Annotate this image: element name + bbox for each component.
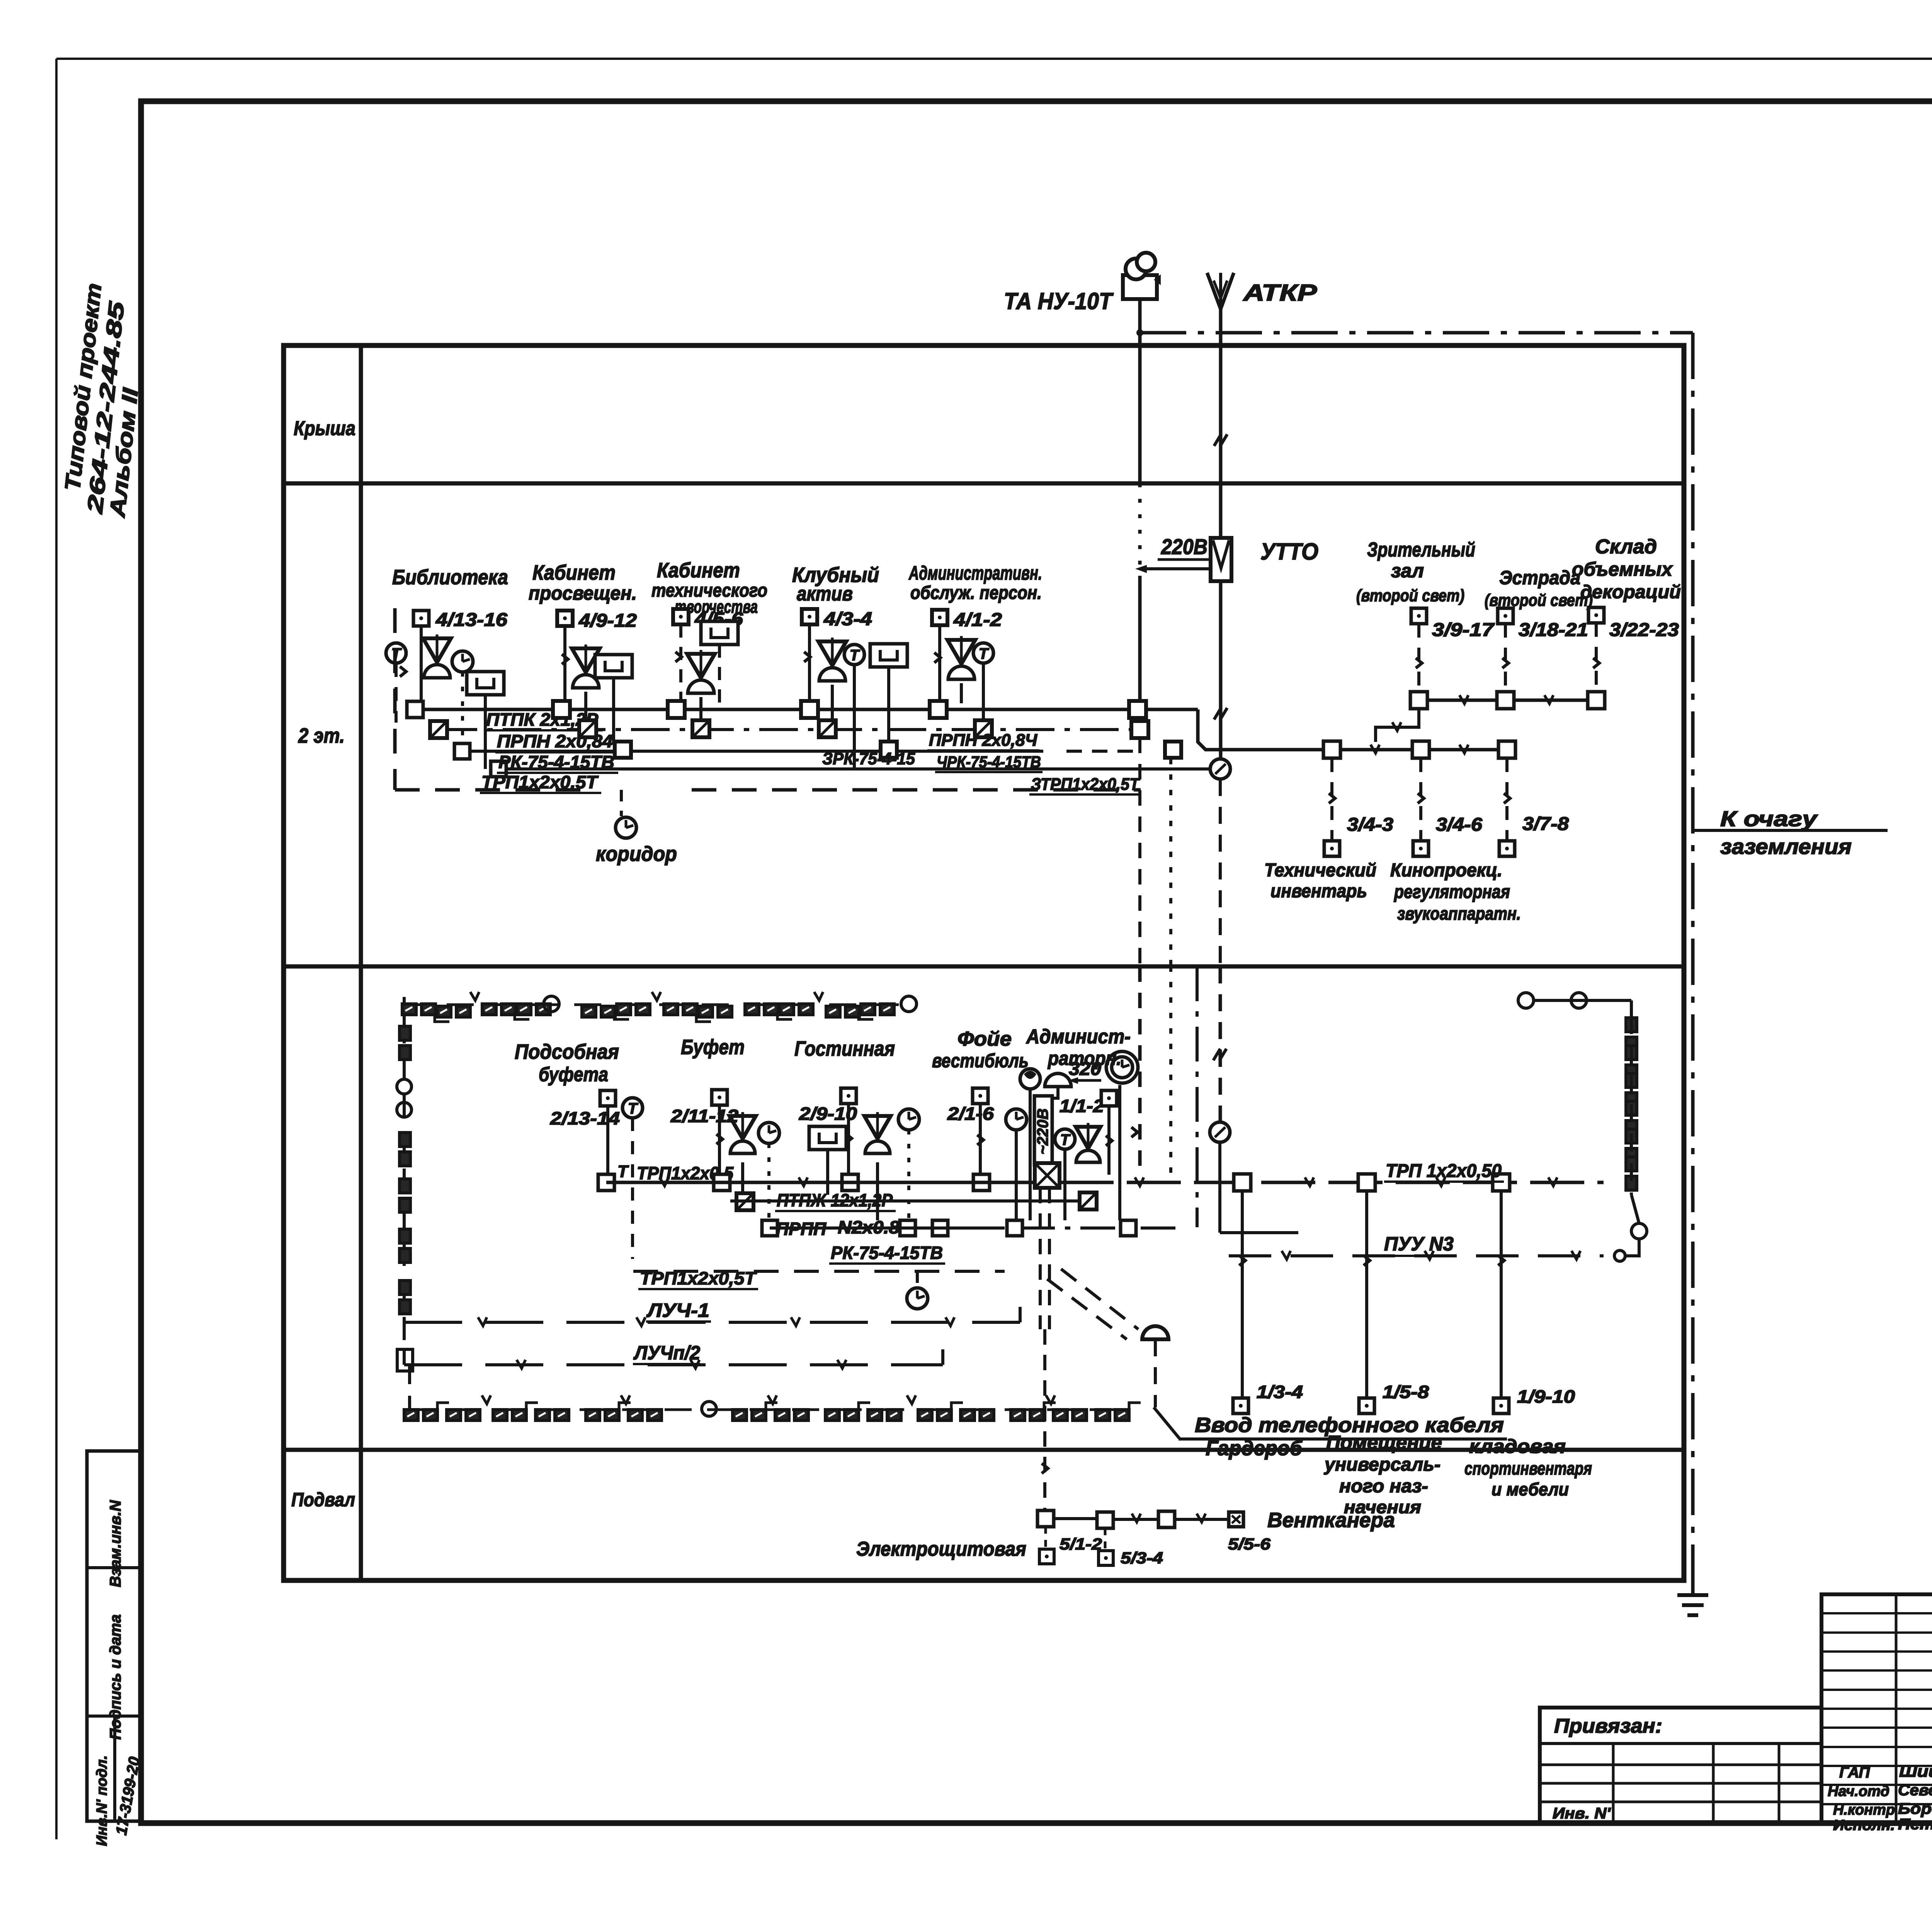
svg-text:универсаль-: универсаль-: [1324, 1454, 1440, 1475]
right perimeter chain boxes: [1626, 1018, 1637, 1032]
wire tvD down: [887, 667, 890, 743]
first floor bottom perimeter wire: [410, 1408, 1121, 1411]
electric bell circle: [1020, 1069, 1040, 1089]
revision table grid: [1821, 1594, 1932, 1823]
terminal box 3/4-6: [1413, 841, 1429, 856]
svg-text:Инв.N' подл.: Инв.N' подл.: [94, 1755, 110, 1846]
svg-text:Технический: Технический: [1264, 860, 1376, 881]
antenna АТКР symbol: [1207, 273, 1234, 309]
antenna riser below splitter: [1218, 1142, 1221, 1233]
wire ЛУЧ-1: [404, 1321, 1020, 1324]
wire clock corridor: [916, 1271, 919, 1288]
svg-text:Т: Т: [628, 1100, 639, 1117]
svg-text:заземления: заземления: [1720, 834, 1852, 859]
telephone socket 1f: [622, 1098, 643, 1118]
svg-text:5/1-2: 5/1-2: [1060, 1535, 1102, 1553]
basement terminal 5/1-2: [1039, 1549, 1054, 1564]
first floor top chain of lamp boxes: [402, 1004, 416, 1015]
svg-text:3/22-23: 3/22-23: [1609, 620, 1679, 640]
telephone socket T 1f: [1055, 1129, 1075, 1149]
chain circle b: [901, 996, 917, 1012]
left chain end box: [397, 1349, 413, 1371]
hatch box E: [975, 720, 992, 737]
svg-text:Подвал: Подвал: [291, 1489, 355, 1510]
loudspeaker C: [687, 654, 715, 678]
svg-text:Административн.: Административн.: [908, 562, 1042, 584]
terminal box 3/18-21: [1498, 608, 1513, 624]
wire tv B down: [612, 678, 615, 743]
antenna splitter circle 2nd floor: [1210, 759, 1230, 779]
svg-text:3/9-17: 3/9-17: [1432, 620, 1495, 640]
wire 3/9-17 down dashed: [1417, 624, 1420, 692]
bus box 3/9-17: [1410, 692, 1427, 709]
svg-text:Исполн.: Исполн.: [1833, 1817, 1895, 1834]
dome horn symbol: [1045, 1073, 1071, 1087]
phone riser lower box: [1165, 742, 1181, 758]
svg-text:Шишков: Шишков: [1899, 1762, 1932, 1780]
wire 2/13-14 down: [606, 1106, 609, 1174]
clock 1f b: [759, 1123, 779, 1143]
wire tv down: [484, 695, 487, 769]
svg-text:1/1-2: 1/1-2: [1060, 1096, 1104, 1116]
terminal box 2/1-6: [973, 1088, 988, 1104]
dash-dot riser 1st floor: [1196, 966, 1199, 1227]
svg-text:Буфет: Буфет: [681, 1036, 745, 1059]
left perimeter chain boxes: [400, 1026, 410, 1040]
wire socket T down: [1063, 1149, 1066, 1220]
svg-text:ПРПН 2х0,8Ч: ПРПН 2х0,8Ч: [929, 731, 1037, 750]
riser piece 1st floor: [1169, 966, 1172, 1182]
svg-text:Т: Т: [1060, 1131, 1071, 1148]
wire riser continues down: [1138, 738, 1141, 966]
svg-text:декораций: декораций: [1580, 582, 1681, 602]
wire 1/5-8 vert: [1365, 1191, 1368, 1397]
wire 2/1-6 down: [979, 1104, 982, 1175]
svg-text:Подпись и дата: Подпись и дата: [107, 1614, 124, 1740]
splitter box УТТО: [1211, 538, 1231, 581]
telephone entry diagonal: [1154, 1407, 1179, 1438]
svg-text:коридор: коридор: [596, 842, 677, 866]
bus box 3/4-3: [1323, 741, 1340, 758]
phone riser pair: [1039, 1188, 1042, 1329]
svg-text:и мебели: и мебели: [1492, 1479, 1569, 1499]
bus2 box c: [900, 1220, 915, 1236]
hatch box 1f b: [736, 1193, 753, 1210]
svg-text:Админист-: Админист-: [1026, 1026, 1131, 1048]
chevron: [400, 667, 406, 677]
wire speaker down c: [876, 1162, 879, 1220]
v marks main bus: [660, 1177, 668, 1186]
ground bus dash-dot riser: [1691, 333, 1695, 1581]
clock symbol: [452, 651, 473, 672]
hatch box ПТПЖ right: [1080, 1192, 1097, 1209]
basement wire 2: [1113, 1518, 1158, 1521]
svg-text:ТРП1х2х0,5Т: ТРП1х2х0,5Т: [481, 772, 599, 792]
terminal box 2/11-12: [712, 1090, 727, 1105]
svg-text:4/3-4: 4/3-4: [823, 609, 872, 629]
wire speaker B down: [584, 692, 587, 722]
svg-text:5/5-6: 5/5-6: [1228, 1535, 1271, 1553]
bus box right3: [1493, 1174, 1510, 1191]
telephone socket E: [973, 643, 993, 663]
svg-text:Т: Т: [850, 647, 861, 664]
2nd floor main bus elbow down: [1198, 709, 1328, 750]
wire socket E down: [982, 663, 985, 722]
telephone set ТА НУ-10Т symbol: [1123, 275, 1157, 299]
junction box D lower: [881, 742, 897, 758]
tv outlet B: [595, 655, 632, 678]
wire tvC down: [718, 645, 721, 709]
break mark on antenna riser: [1214, 434, 1221, 446]
loudspeaker E: [947, 640, 975, 664]
svg-text:обслуж. персон.: обслуж. персон.: [910, 583, 1042, 603]
basement box b: [1097, 1512, 1113, 1528]
basement box 5/1-2 main: [1037, 1510, 1054, 1527]
stamp strip box: [87, 1451, 141, 1821]
loudspeaker symbol: [423, 638, 451, 662]
svg-text:Кабинет: Кабинет: [532, 561, 616, 584]
second floor line: [284, 964, 1684, 969]
terminal box 1/9-10: [1493, 1398, 1509, 1414]
hatch box D: [819, 720, 836, 737]
right chain wire: [1630, 1016, 1633, 1195]
bus box 3/22-23: [1588, 692, 1605, 709]
telephone socket D: [844, 645, 864, 665]
2nd floor bus РК wire: [498, 767, 1211, 771]
tv outlet 1f: [809, 1126, 846, 1150]
bus junction box E: [930, 701, 947, 718]
wire 3/22-23 down dashed: [1595, 623, 1598, 692]
antenna riser to splitter tail: [1219, 779, 1222, 966]
svg-text:ЧРК-75-4-15ТВ: ЧРК-75-4-15ТВ: [937, 753, 1041, 771]
floor label column divider: [359, 345, 363, 1580]
svg-text:2 эт.: 2 эт.: [298, 724, 345, 747]
svg-text:просвещен.: просвещен.: [529, 582, 637, 604]
svg-text:зал: зал: [1391, 560, 1424, 582]
svg-text:Вентканера: Вентканера: [1267, 1509, 1395, 1532]
wire 3/18-21 down dashed: [1504, 624, 1507, 692]
svg-text:ЛУЧп/2: ЛУЧп/2: [633, 1342, 700, 1364]
wire 3/4-6 down: [1419, 758, 1422, 841]
tv outlet C: [701, 621, 738, 645]
v marks bottom chain: [482, 1395, 491, 1404]
svg-text:5/3-4: 5/3-4: [1121, 1549, 1163, 1567]
svg-text:спортинвентаря: спортинвентаря: [1464, 1458, 1592, 1478]
dashed diagonal to bell: [1061, 1269, 1138, 1329]
svg-text:Кинопроекц.: Кинопроекц.: [1390, 860, 1502, 881]
phone riser 1st floor segment: [1138, 966, 1142, 1174]
svg-text:1/9-10: 1/9-10: [1517, 1386, 1575, 1407]
svg-text:Северинов: Северинов: [1898, 1782, 1932, 1799]
svg-text:Фойе: Фойе: [957, 1028, 1012, 1050]
svg-text:320: 320: [1069, 1059, 1101, 1079]
terminal box 1/3-4: [1233, 1398, 1248, 1414]
bus junction box D: [801, 701, 818, 718]
wire bell down: [1154, 1339, 1157, 1407]
svg-text:ГАП: ГАП: [1839, 1764, 1870, 1781]
first floor main bus wire: [606, 1181, 1035, 1184]
wire connector down: [1376, 709, 1419, 742]
building outline: [284, 345, 1684, 1580]
bus junction box C: [668, 701, 685, 718]
wire speaker C down: [699, 697, 702, 722]
svg-text:Нач.отд: Нач.отд: [1828, 1783, 1889, 1800]
svg-text:3/7-8: 3/7-8: [1522, 814, 1569, 834]
terminal box 4/9-12: [557, 611, 573, 626]
wire master clock down: [1118, 1085, 1121, 1220]
svg-text:актив: актив: [797, 583, 853, 605]
roof distribution dash-dot wire: [1140, 331, 1693, 335]
svg-text:буфета: буфета: [539, 1063, 608, 1086]
svg-text:регуляторная: регуляторная: [1393, 882, 1510, 902]
wire terminal to bus E: [938, 625, 941, 702]
line ПТПЖ: [730, 1199, 1082, 1203]
terminal box 3/22-23: [1588, 607, 1604, 623]
svg-text:ПУУ N3: ПУУ N3: [1384, 1233, 1454, 1255]
terminal box 4/1-2: [932, 610, 947, 625]
svg-text:220В: 220В: [1161, 534, 1207, 559]
svg-text:Кабинет: Кабинет: [657, 559, 740, 582]
svg-text:1/5-8: 1/5-8: [1383, 1382, 1429, 1402]
wire tv down 1f: [826, 1150, 829, 1195]
hatch box on dash-dot bus: [430, 721, 447, 738]
corridor clock: [616, 817, 636, 838]
wire dome down: [1047, 1087, 1058, 1109]
antenna splitter circle 1st floor: [1210, 1122, 1230, 1142]
wire 1/3-4 vert: [1241, 1191, 1244, 1397]
svg-text:объемных: объемных: [1572, 558, 1673, 580]
bus junction box B: [553, 701, 570, 718]
antenna riser 1st floor: [1219, 966, 1222, 1122]
2nd floor dashed zone boundary: [393, 608, 397, 790]
terminal box 3/4-3: [1324, 841, 1340, 856]
svg-text:Ввод телефонного кабеля: Ввод телефонного кабеля: [1195, 1414, 1504, 1437]
wire clock down: [461, 672, 464, 744]
junction box on lower bus: [454, 743, 470, 759]
svg-text:Н.контр: Н.контр: [1833, 1802, 1895, 1818]
basement floor line: [284, 1448, 1684, 1452]
svg-text:инвентарь: инвентарь: [1270, 881, 1367, 902]
bus box 3/18-21: [1497, 692, 1514, 709]
page outer border: [56, 58, 1932, 60]
svg-text:Инв. N': Инв. N': [1553, 1805, 1611, 1822]
wire speaker down b: [741, 1162, 744, 1195]
loudspeaker 1f c: [864, 1116, 891, 1139]
svg-text:(второй свет): (второй свет): [1356, 586, 1464, 605]
wire terminal to bus: [420, 626, 423, 702]
dashed wire ТРП boundary: [633, 1270, 1005, 1273]
bottom chain circle: [702, 1402, 716, 1416]
svg-text:4/9-12: 4/9-12: [578, 611, 637, 631]
privyazan box: [1540, 1708, 1821, 1823]
terminal box 1/1-2: [1101, 1090, 1117, 1106]
bus box 3/4-6: [1412, 741, 1429, 758]
svg-text:3/4-3: 3/4-3: [1347, 815, 1393, 835]
bus junction box: [407, 701, 423, 718]
privyazan header line: [1540, 1742, 1821, 1745]
bus box right2: [1358, 1174, 1375, 1191]
wire speaker E down: [960, 683, 963, 703]
svg-text:4/1-2: 4/1-2: [953, 610, 1002, 630]
wire 3/4-3 down: [1330, 758, 1333, 841]
svg-text:4/13-16: 4/13-16: [435, 610, 507, 630]
break mark antenna 1f: [1213, 1049, 1220, 1060]
antenna riser wire: [1219, 309, 1223, 538]
clock 1f c: [898, 1109, 919, 1130]
svg-text:Склад: Склад: [1595, 536, 1657, 558]
terminal box 4/3-4: [802, 609, 817, 624]
wire socket dash down: [631, 1118, 634, 1259]
junction box lower2: [491, 761, 506, 777]
fire bell dome: [1142, 1326, 1168, 1339]
svg-text:Т: Т: [391, 645, 402, 662]
bus box 3/7-8: [1498, 741, 1515, 758]
svg-text:звукоаппаратн.: звукоаппаратн.: [1397, 903, 1521, 924]
loudspeaker D: [818, 641, 846, 665]
main bus end box at riser: [1129, 701, 1146, 718]
left chain circle b: [397, 1102, 412, 1117]
basement drop 2: [1104, 1528, 1107, 1550]
svg-text:2/1-6: 2/1-6: [947, 1104, 994, 1124]
cable tag rect ~2208: [1034, 1096, 1052, 1165]
telephone riser wire dotted part: [1138, 483, 1142, 576]
wire bell down: [1029, 1089, 1032, 1220]
loudspeaker 1f b: [730, 1116, 756, 1139]
terminal box 2/9-10: [841, 1088, 856, 1104]
telephone riser wire: [1138, 299, 1142, 483]
phone riser lower: [1043, 1329, 1046, 1511]
svg-text:К очагу: К очагу: [1720, 806, 1818, 831]
chain circle a: [544, 996, 559, 1012]
wire socket D down: [853, 665, 856, 769]
clock corridor 1f: [907, 1288, 928, 1309]
svg-text:ПРПП: ПРПП: [776, 1219, 827, 1239]
svg-text:Т: Т: [617, 1162, 629, 1181]
roof floor line: [284, 481, 1684, 486]
chevron admin: [1131, 1127, 1138, 1137]
terminal box 4/5-6: [673, 609, 689, 624]
tv outlet symbol: [467, 672, 504, 695]
right chain circle: [1631, 1223, 1647, 1239]
svg-text:РК-75-4-15ТВ: РК-75-4-15ТВ: [831, 1243, 943, 1263]
svg-text:ТРП 1х2х0,50: ТРП 1х2х0,50: [1386, 1161, 1502, 1181]
svg-text:Электрощитовая: Электрощитовая: [856, 1538, 1026, 1560]
basement box c: [1158, 1511, 1175, 1527]
clock small 1f: [1006, 1109, 1027, 1130]
basement drop 1: [1044, 1527, 1047, 1548]
svg-text:вестибюль: вестибюль: [932, 1050, 1029, 1072]
bus2 box d: [932, 1220, 948, 1236]
ground symbol: [1677, 1593, 1708, 1597]
privyazan grid: [1612, 1744, 1615, 1823]
svg-text:ного наз-: ного наз-: [1339, 1476, 1428, 1497]
bus box 2/9-10: [842, 1174, 858, 1191]
wire ЛУЧп/2: [404, 1363, 943, 1366]
ground lead line: [1692, 829, 1888, 832]
wire 2/11-12 down: [718, 1105, 721, 1175]
svg-text:3/4-6: 3/4-6: [1436, 815, 1482, 835]
terminal box 3/9-17: [1411, 608, 1427, 624]
loudspeaker admin: [1076, 1127, 1100, 1148]
first floor top perimeter wire: [403, 997, 406, 1020]
bus2 box f: [1121, 1220, 1136, 1236]
left chain circle a: [397, 1079, 412, 1094]
hatch box B: [579, 720, 596, 737]
svg-text:ЗТРП1х2х0,5Т: ЗТРП1х2х0,5Т: [1031, 775, 1140, 794]
svg-text:~220В: ~220В: [1034, 1109, 1051, 1155]
svg-text:Крыша: Крыша: [294, 417, 355, 440]
tv outlet D: [870, 644, 907, 667]
ground lead down: [1691, 1581, 1695, 1595]
svg-text:ЗРК-75-4-15: ЗРК-75-4-15: [822, 749, 915, 768]
wire 1/1-2 down: [1107, 1106, 1111, 1175]
wire 2/9-10 down: [847, 1104, 850, 1175]
wire luch risers: [403, 1322, 406, 1365]
wire speaker D down: [831, 685, 834, 722]
2nd floor main bus wire: [415, 708, 1198, 711]
wire terminal to bus D: [808, 624, 811, 702]
basement wire 3: [1175, 1518, 1228, 1521]
svg-text:3/18-21: 3/18-21: [1519, 620, 1588, 640]
svg-text:УТТО: УТТО: [1260, 539, 1318, 565]
2nd floor bus ПРПН wire: [462, 750, 1043, 753]
svg-text:ТА НУ-10Т: ТА НУ-10Т: [1004, 288, 1114, 314]
wire clock down c: [907, 1130, 910, 1220]
wire 1/9-10 vert: [1500, 1191, 1503, 1397]
upper right bus wire: [1419, 699, 1596, 702]
svg-text:Взам.инв.N: Взам.инв.N: [107, 1500, 124, 1587]
svg-text:АТКР: АТКР: [1242, 280, 1317, 306]
svg-text:Подсобная: Подсобная: [515, 1040, 619, 1063]
svg-text:1/3-4: 1/3-4: [1257, 1382, 1303, 1402]
bus box 2/13-14: [598, 1174, 614, 1191]
puu dashed wire: [1229, 1254, 1604, 1257]
wire riser piece: [1169, 759, 1172, 966]
svg-text:ЛУЧ-1: ЛУЧ-1: [646, 1300, 709, 1321]
terminal box 3/7-8: [1499, 841, 1515, 856]
v mark connector: [1392, 722, 1401, 731]
junction box B lower: [615, 742, 631, 758]
terminal box 1/5-8: [1359, 1398, 1374, 1414]
terminal box 2/13-14: [600, 1090, 616, 1106]
wire clock down b dotted: [767, 1143, 770, 1220]
bottom chain of lamp boxes: [404, 1410, 418, 1420]
loudspeaker B: [572, 648, 600, 672]
svg-text:Зрительный: Зрительный: [1367, 539, 1475, 561]
bus2 box left: [762, 1220, 777, 1236]
svg-text:Т: Т: [979, 645, 990, 662]
telephone dist box X: [1035, 1163, 1060, 1188]
first floor bus2 wire: [770, 1226, 1005, 1230]
corridor wire down: [620, 790, 623, 816]
basement wire 1: [1054, 1517, 1097, 1520]
svg-text:Привязан:: Привязан:: [1554, 1715, 1662, 1737]
right top circles: [1518, 993, 1534, 1008]
svg-text:Библиотека: Библиотека: [392, 566, 508, 589]
svg-text:Эстрада: Эстрада: [1499, 567, 1580, 589]
svg-text:РК-75-4-15ТВ: РК-75-4-15ТВ: [498, 752, 614, 772]
wire terminal to bus B: [563, 626, 566, 702]
v marks on top chain: [470, 992, 479, 1000]
svg-text:N2х0.8: N2х0.8: [838, 1217, 900, 1237]
telephone socket circle Т: [386, 643, 406, 663]
antenna riser below УТТО: [1219, 581, 1223, 759]
lower right bus wire: [1328, 748, 1507, 752]
svg-text:Петрова: Петрова: [1898, 1816, 1932, 1833]
right chain to puu: [1625, 1239, 1639, 1256]
wire terminal to bus C: [679, 624, 682, 702]
svg-text:Бородкин: Бородкин: [1898, 1800, 1932, 1817]
